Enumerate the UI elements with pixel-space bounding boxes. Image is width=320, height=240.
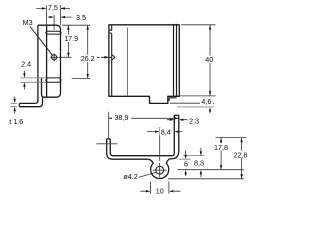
dim 10 extension lines [151, 182, 169, 194]
side view internal thin line [127, 28, 129, 97]
dim 38,9 left extension [108, 112, 110, 138]
bottom view right flange top [174, 114, 179, 116]
label 38,9 white box [112, 113, 132, 120]
label 4,6 white box [200, 97, 213, 104]
body bottom extension (40 / 4,6) [177, 95, 215, 97]
bottom view left flange top [107, 138, 111, 140]
dim 7,5 arrow lines [36, 7, 70, 9]
26,2 arrows [87, 25, 89, 29]
front view left edge and foot top [19, 25, 38, 103]
2,4 arrows [23, 73, 25, 77]
svg-text:38,9: 38,9 [115, 113, 129, 122]
side view foot bottom gray line [177, 106, 214, 108]
label 8,4 white box [160, 128, 173, 135]
M3 hole circle [52, 55, 57, 60]
dim 3,5 arrow lines [48, 16, 72, 18]
10 arrows [146, 190, 150, 192]
dim 40 line [209, 25, 211, 95]
label 26.2 white box [79, 55, 98, 62]
dim t1,6 arrow shafts [14, 97, 16, 114]
svg-text:ø4.2: ø4.2 [123, 172, 137, 181]
label 17,8 white box [212, 143, 230, 150]
front view bottom rib slot [46, 78, 62, 82]
svg-text:t 1.6: t 1.6 [9, 117, 23, 126]
dim 4,6 arrow shafts [209, 89, 211, 114]
svg-text:2.4: 2.4 [21, 59, 31, 68]
dim 3,5 extension line [53, 15, 55, 30]
svg-text:7,5: 7,5 [48, 3, 58, 12]
dim 26,2 bottom extension [72, 77, 90, 79]
dim 38,9 line [109, 117, 179, 119]
front view bend inner line [46, 25, 48, 97]
bottom view left flange outer [107, 139, 148, 159]
bottom view right flange outer / strip bottom right [170, 115, 179, 159]
dim 17,9 line [67, 25, 69, 57]
dim 17,8 / 22,6 top extension [216, 137, 247, 139]
2,3 arrows [170, 119, 174, 121]
40 arrows [209, 25, 211, 29]
3,5 arrows [50, 16, 54, 18]
dim 8,4 hole extension [159, 127, 161, 161]
strip bottom extension for 6 [179, 158, 191, 160]
dim 22,6 line [241, 138, 243, 179]
svg-text:M3: M3 [23, 18, 33, 27]
svg-text:8,4: 8,4 [161, 128, 171, 137]
dim 26,2 line [87, 25, 89, 78]
side view body outline [109, 25, 179, 104]
svg-text:8,3: 8,3 [194, 159, 204, 168]
svg-text:22,6: 22,6 [234, 151, 248, 160]
side view lower foot line [170, 102, 214, 104]
front view top rib slot [46, 31, 62, 34]
text labels with white masks [9, 3, 249, 196]
8,4 arrows [155, 130, 159, 132]
17,9 arrows [67, 25, 69, 29]
top edge extension for 17.9/26.2 [62, 24, 90, 26]
dim 2,4 extension lines [20, 78, 46, 82]
front view foot left end [18, 103, 20, 106]
17,8 arrows [220, 138, 222, 142]
bottom view flange center tick [97, 143, 118, 145]
side view bottom right step [169, 98, 176, 101]
bottom view left flange inner / strip top [110, 115, 174, 155]
38,9 arrows [109, 117, 113, 119]
svg-text:17.9: 17.9 [64, 34, 78, 43]
hole horizontal extension [178, 169, 244, 171]
bottom view round tab [148, 159, 170, 179]
front view foot bottom [19, 97, 42, 106]
6 arrows [185, 155, 187, 159]
svg-text:40: 40 [205, 55, 213, 64]
tab bottom extension [168, 178, 244, 180]
svg-text:2,3: 2,3 [189, 117, 199, 126]
dim 8,3 arrow shafts [200, 148, 202, 178]
side view left edge projection bump [112, 54, 115, 60]
leader M3 [30, 27, 53, 56]
leader ø4.2 [139, 172, 156, 177]
dim t1,6 extension lines [11, 103, 18, 106]
dim 10 arrow lines [140, 190, 180, 192]
strip top extension for 8,3 [183, 155, 204, 157]
dim 7,5 extension lines [47, 5, 61, 25]
M3 hole center cross [50, 53, 71, 61]
side view bracket plate edge lines [174, 24, 177, 97]
bottom hole center cross [153, 163, 167, 177]
svg-text:17,8: 17,8 [214, 143, 228, 152]
svg-text:4,6: 4,6 [201, 97, 211, 106]
top edge extension right (40) [181, 24, 216, 26]
label 40 white box [204, 56, 215, 63]
arrowheads [14, 7, 243, 192]
label 17.9 white box [62, 35, 82, 42]
22,6 arrows [240, 138, 242, 142]
hole axis center line with arrow [96, 56, 112, 58]
side view inner left line upper [109, 25, 112, 97]
8,3 arrows [200, 151, 202, 155]
svg-text:6: 6 [184, 159, 188, 168]
label 22,6 white box [232, 151, 249, 158]
dim 17,8 line [220, 138, 222, 170]
dim 2,4 arrow shafts [23, 71, 25, 90]
t1,6 arrows [14, 99, 16, 103]
svg-text:26.2: 26.2 [81, 54, 95, 63]
7,5 arrows [42, 7, 46, 9]
dim 6 arrow shafts [185, 151, 187, 177]
dim 2,3 arrow lines [167, 119, 188, 121]
dim 8,4 arrow lines [147, 131, 182, 133]
front view plate outline [38, 25, 61, 97]
bottom hole circle [156, 166, 164, 174]
svg-text:10: 10 [156, 187, 164, 196]
svg-text:3.5: 3.5 [76, 13, 86, 22]
